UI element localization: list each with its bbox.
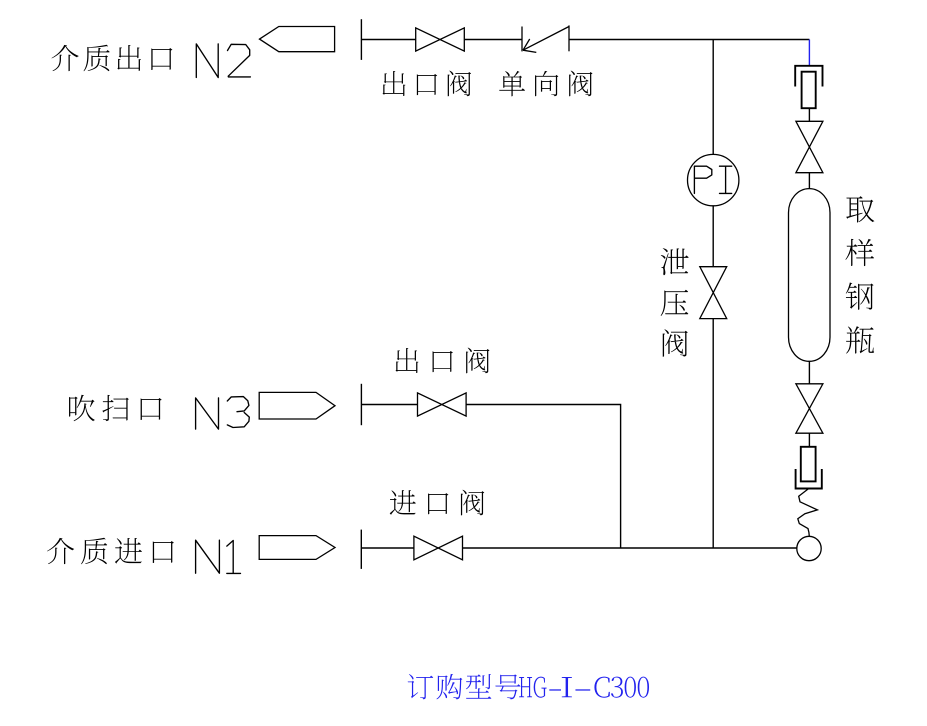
label: order model 订购型号HG-I-C300 (blue): [408, 674, 649, 699]
hose: flexible spring squiggle: [798, 489, 818, 537]
node: N3 pipe end tick: [360, 384, 362, 425]
label: 取样钢瓶 vertical: [845, 196, 874, 353]
label: 单向阀 check valve: [499, 71, 592, 97]
valve: cylinder top valve (vertical bowtie): [796, 121, 823, 172]
fitting: top connector inner rect: [802, 72, 816, 109]
fitting: top quick-connect staple: [795, 66, 822, 87]
wire: N1 tick to inlet valve: [361, 547, 414, 549]
label: medium outlet text 介质出口: [52, 45, 173, 72]
wire: outlet valve to check valve: [464, 39, 522, 41]
valve: relief valve 泄压阀 (vertical bowtie): [700, 267, 727, 319]
wire: PI gauge to relief valve: [712, 206, 714, 267]
fitting: bottom connector inner rect: [801, 447, 816, 482]
port N2 marker text: [196, 44, 250, 78]
node: N2 pipe end tick: [360, 19, 362, 60]
wire: vertical from top pipe to PI gauge: [712, 40, 714, 155]
port N3 marker text: [196, 397, 250, 430]
vessel: sampling cylinder capsule 取样钢瓶: [789, 189, 831, 362]
instrument text PI: [694, 166, 731, 193]
valve: N3 outlet valve (bowtie): [418, 393, 467, 416]
wire: blue drop segment at top right corner: [808, 40, 810, 66]
port N2 flag arrow (points left): [260, 27, 335, 52]
wire: connector to cylinder top valve: [808, 108, 810, 121]
wire: check valve to top-right corner: [569, 39, 809, 41]
node: N1 pipe end tick: [360, 530, 362, 569]
port N1 flag arrow (points right): [259, 536, 335, 560]
wire: valve to cylinder top: [808, 173, 810, 189]
check valve 单向阀 symbol: [522, 25, 569, 52]
label: 进口阀 above N1 valve: [390, 490, 485, 516]
wire: inlet valve to bottom circle connector: [463, 547, 797, 549]
port N1 marker text: [196, 540, 241, 573]
label: 出口阀 outlet valve: [382, 71, 471, 97]
valve: inlet valve 进口阀 (bowtie): [414, 536, 463, 560]
label: 泄压阀 vertical: [661, 248, 689, 357]
valve: cylinder bottom valve (vertical bowtie): [796, 384, 823, 433]
instrument: PI pressure gauge circle: [688, 154, 739, 205]
valve: outlet valve (bowtie) on N2 line: [416, 28, 465, 51]
wire: relief valve down to bottom pipe: [712, 319, 714, 548]
wire: N2 tick to outlet valve: [361, 39, 415, 41]
wire: N3 valve to corner and down: [466, 405, 621, 549]
port N3 flag arrow (points right): [259, 392, 335, 419]
wire: N3 tick to valve: [361, 404, 417, 406]
label: medium inlet text 介质进口: [47, 538, 174, 565]
fitting: bottom quick-connect cup: [796, 469, 822, 489]
wire: valve to bottom connector: [808, 433, 810, 447]
label: purge port text 吹扫口: [69, 395, 162, 422]
label: 出口阀 above N3 valve: [395, 348, 489, 374]
wire: cylinder bottom to bottom valve: [808, 361, 810, 383]
fitting: bottom circle connector: [797, 536, 821, 560]
